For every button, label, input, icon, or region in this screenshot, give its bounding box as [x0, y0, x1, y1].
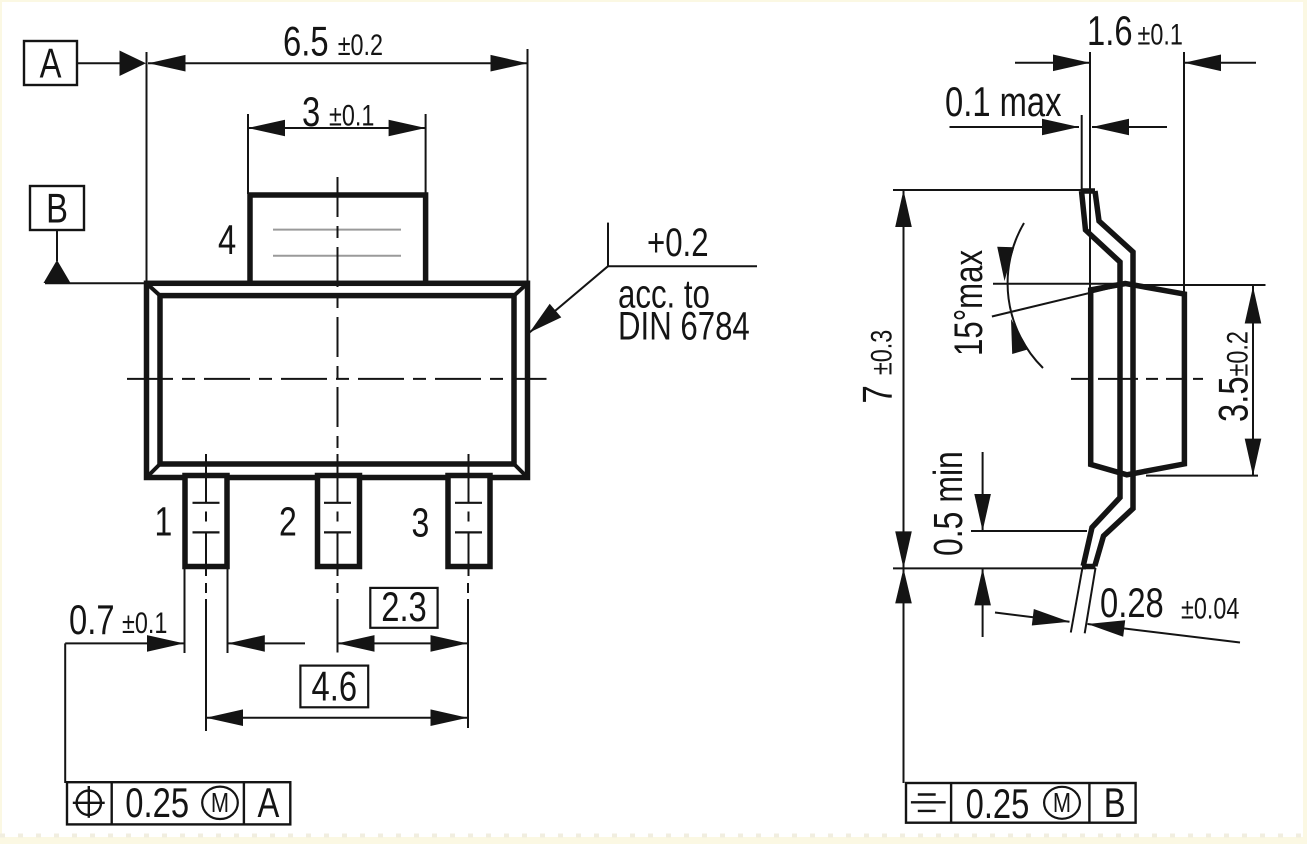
svg-text:2.3: 2.3	[381, 583, 427, 630]
pin 3 center ticks	[455, 503, 482, 533]
svg-text:M: M	[211, 787, 229, 818]
dimension 0.28 text	[1100, 579, 1239, 626]
angle 15 max text	[946, 250, 991, 356]
extension line body right edge	[527, 49, 529, 282]
scan artifact row	[0, 834, 1307, 838]
body inner outline	[160, 296, 514, 464]
svg-text:1: 1	[155, 499, 173, 545]
dimension 2.3 line	[338, 635, 468, 652]
svg-text:DIN 6784: DIN 6784	[618, 304, 750, 349]
angle slant line	[992, 284, 1126, 316]
lead side profile	[1082, 191, 1134, 567]
body horizontal centerline	[127, 378, 547, 380]
dimension 3.5 line	[1245, 286, 1262, 476]
svg-text:±0.2: ±0.2	[338, 28, 383, 61]
feature control frame (symmetry 0.25 M B)	[906, 779, 1136, 827]
pin 4 label	[218, 216, 236, 263]
datum B triangle	[44, 260, 71, 283]
body side view outline	[1091, 284, 1185, 475]
dimension 1.6 text	[1087, 7, 1183, 54]
dimension 2.3 box	[370, 583, 437, 630]
dimension 7 top extension	[893, 189, 1083, 191]
svg-text:15°max: 15°max	[946, 250, 991, 356]
dimension 0.7 line	[65, 635, 305, 652]
dimension 4.6 box	[300, 663, 368, 710]
datum A triangle	[120, 51, 147, 77]
dimension 4.6 line	[206, 709, 468, 726]
dimension 3.5 top extension	[1130, 284, 1266, 286]
dimension 0.5 min text	[925, 451, 971, 556]
extension line body right side	[1183, 52, 1185, 294]
angle reference line	[993, 283, 1126, 285]
dimension 0.1 line	[950, 119, 1168, 136]
dimension 6.5 text	[283, 18, 383, 65]
pin 3 label	[412, 500, 430, 546]
dimension 3.5 text	[1210, 331, 1257, 422]
svg-text:M: M	[1053, 787, 1071, 818]
pin 3 lower centerline	[467, 583, 469, 728]
extension line lead tip	[1081, 115, 1083, 191]
datum B line to body	[45, 282, 148, 284]
feature control frame (position 0.25 M A)	[67, 779, 290, 826]
dimension 3 line	[248, 120, 426, 137]
pin 3 outline	[448, 476, 490, 567]
svg-text:±0.04: ±0.04	[1181, 592, 1239, 625]
svg-text:A: A	[258, 779, 281, 826]
pin 2 label	[279, 499, 297, 545]
dimension 0.5 extension line	[971, 530, 1087, 532]
svg-text:B: B	[1104, 779, 1126, 826]
tab marking lines	[273, 230, 401, 256]
svg-text:3: 3	[412, 500, 430, 546]
pin 2 center ticks	[324, 503, 351, 533]
pin 1 lower centerline	[205, 583, 207, 731]
svg-text:0.1 max: 0.1 max	[945, 78, 1062, 125]
dimension 0.5 line	[974, 452, 991, 637]
body corner bevels	[147, 283, 528, 477]
svg-text:4: 4	[218, 216, 236, 263]
svg-text:3: 3	[302, 88, 320, 135]
side view centerline	[1071, 378, 1203, 380]
dimension 0.1 max text	[945, 78, 1062, 125]
svg-text:0.25: 0.25	[125, 779, 189, 826]
svg-text:A: A	[40, 40, 63, 87]
dimension 0.28 line	[995, 609, 1240, 643]
seating plane line	[893, 567, 1086, 569]
datum label B box	[30, 185, 84, 232]
body outer outline	[147, 283, 528, 477]
mould note leader arrow	[530, 223, 758, 333]
svg-text:4.6: 4.6	[312, 663, 358, 710]
angle arc arrows	[997, 247, 1028, 354]
dimension 7 text	[854, 330, 901, 404]
pin 2 outline	[318, 476, 360, 567]
svg-text:1.6: 1.6	[1087, 7, 1133, 54]
pin 2 lower centerline	[337, 583, 339, 653]
svg-text:0.7: 0.7	[69, 596, 115, 643]
datum label A box	[24, 40, 77, 87]
svg-text:±0.1: ±0.1	[1138, 18, 1183, 51]
svg-text:0.5 min: 0.5 min	[925, 451, 971, 556]
extension line body left edge	[146, 52, 148, 284]
datum B leader	[56, 230, 58, 261]
pin 1 label	[155, 499, 173, 545]
svg-text:±0.1: ±0.1	[329, 99, 374, 132]
body vertical centerline	[337, 177, 339, 455]
svg-text:B: B	[46, 185, 68, 232]
dimension 3.5 bottom extension	[1146, 475, 1258, 477]
svg-text:6.5: 6.5	[283, 18, 329, 65]
extension line lead left	[1089, 52, 1091, 290]
dimension 6.5 line	[148, 55, 528, 72]
dimension 7 line	[895, 190, 912, 783]
pin 1 edge extension lines	[185, 567, 228, 653]
dimension 1.6 line	[1015, 55, 1256, 72]
dimension 3 extension lines	[248, 114, 426, 194]
svg-text:0.28: 0.28	[1100, 579, 1164, 626]
lead foot extension lines	[1071, 568, 1096, 633]
pin 1 centerline	[205, 454, 207, 576]
mould note text	[618, 220, 750, 348]
dimension 0.7 text	[69, 596, 167, 643]
svg-text:2: 2	[279, 499, 297, 545]
pin 1 outline	[185, 476, 227, 567]
svg-text:+0.2: +0.2	[647, 220, 709, 265]
pin 1 center ticks	[193, 503, 220, 533]
dimension 3 text	[302, 88, 374, 135]
pin 3 centerline	[468, 454, 470, 576]
angle arc	[1008, 223, 1043, 368]
datum A leader	[77, 62, 120, 64]
svg-text:0.25: 0.25	[966, 780, 1030, 827]
dimension 0.7 datum connector	[64, 643, 66, 783]
pin 2 centerline	[337, 454, 339, 576]
svg-text:±0.1: ±0.1	[122, 606, 167, 639]
tab (pin 4) outline	[250, 195, 426, 288]
